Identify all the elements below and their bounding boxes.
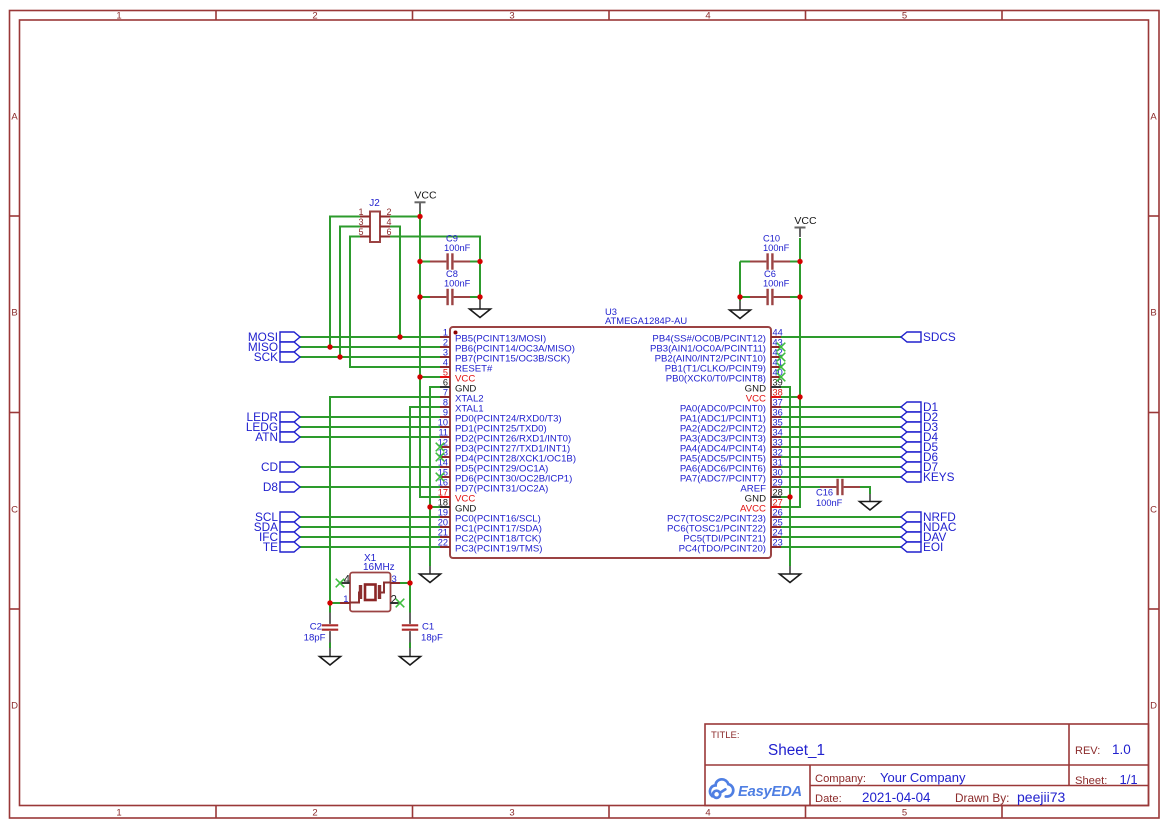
svg-text:2: 2 <box>443 338 448 348</box>
U3 pin 29 AREF <box>740 478 782 495</box>
junction XTAL2 / X1 pin1 / C2 <box>327 600 332 605</box>
port flag D1 <box>901 400 938 414</box>
IC U3 ATMEGA1284P-AU body <box>450 327 771 558</box>
wire C10/C6 left rail to ground <box>739 262 741 303</box>
svg-text:100nF: 100nF <box>763 243 790 253</box>
port flag NDAC <box>901 520 957 534</box>
wire SDA flag to U3 pin20 <box>300 526 440 528</box>
U3 pin 1 PB5(PCINT13/MOSI) <box>440 328 546 345</box>
svg-text:4: 4 <box>443 358 448 368</box>
svg-text:1: 1 <box>116 11 121 22</box>
title block <box>705 724 1149 806</box>
svg-text:TITLE:: TITLE: <box>711 730 740 741</box>
U3 pin 27 AVCC <box>740 498 783 515</box>
wire C16 to ground <box>860 487 870 495</box>
svg-text:Drawn By:: Drawn By: <box>955 791 1009 805</box>
X1 pin 4 <box>340 575 351 587</box>
svg-text:C1: C1 <box>422 622 434 633</box>
svg-text:EasyEDA: EasyEDA <box>738 784 802 800</box>
wire U3 to D6 flag <box>781 456 901 458</box>
wire VCC rail right (to U3 pin27 AVCC) <box>781 238 800 507</box>
svg-text:D: D <box>1150 701 1157 712</box>
U3 pin 32 PA5(ADC5/PCINT5) <box>680 448 783 465</box>
junction U3 pin28 / GND rail <box>787 494 792 499</box>
U3 pin 9 PD0(PCINT24/RXD0/T3) <box>440 408 562 425</box>
U3 pin 8 XTAL1 <box>440 398 484 415</box>
wire C2 to ground <box>329 642 331 649</box>
wire VCC rail to C8 left <box>420 296 430 298</box>
svg-text:7: 7 <box>443 388 448 398</box>
wire C6 right to VCC rail <box>790 296 800 298</box>
port flag LEDR <box>247 410 300 424</box>
no-connect X on U3 pin 12 <box>436 443 445 452</box>
U3 pin 41 PB1(T1/CLKO/PCINT9) <box>665 358 783 375</box>
U3 pin 14 PD5(PCINT29/OC1A) <box>438 458 549 475</box>
crystal X1 body <box>350 573 391 612</box>
svg-text:4: 4 <box>344 575 351 587</box>
wire U3 pin8 XTAL1 to crystal pin3 / C1 <box>410 407 440 614</box>
svg-text:2: 2 <box>312 11 317 22</box>
wire SCL flag to U3 pin19 <box>300 516 440 518</box>
svg-text:PC4(TDO/PCINT20): PC4(TDO/PCINT20) <box>679 543 766 554</box>
svg-text:Company:: Company: <box>815 773 866 785</box>
U3 pin 44 PB4(SS#/OC0B/PCINT12) <box>652 328 782 345</box>
wire U3 pin39 GND to ground rail <box>781 387 790 567</box>
ground below U3 pin6/pin18 rail <box>420 566 441 583</box>
junction C6 right / VCC rail <box>797 294 802 299</box>
port flag SCL <box>255 510 300 524</box>
svg-text:REV:: REV: <box>1075 745 1100 757</box>
J2 pin 2 <box>380 207 392 217</box>
power symbol VCC (right) <box>794 215 817 237</box>
U3 pin 11 PD2(PCINT26/RXD1/INT0) <box>438 428 571 445</box>
svg-text:100nF: 100nF <box>763 279 790 289</box>
port flag SCK <box>254 350 300 364</box>
svg-text:A: A <box>11 112 18 123</box>
capacitor C2 <box>322 613 338 643</box>
svg-text:2021-04-04: 2021-04-04 <box>862 790 931 805</box>
svg-text:VCC: VCC <box>414 190 437 202</box>
U3 pin 21 PC2(PCINT18/TCK) <box>438 528 542 545</box>
junction C9 right / rail <box>477 259 482 264</box>
wire U3 pin29 AREF to C16 <box>781 486 820 488</box>
C10 labels <box>763 234 790 254</box>
J2 pin 5 <box>358 227 370 237</box>
svg-text:C: C <box>11 505 18 516</box>
no-connect X on U3 pin 41 <box>777 363 786 372</box>
svg-text:4: 4 <box>705 11 710 22</box>
U3 pin 12 PD3(PCINT27/TXD1/INT1) <box>438 438 570 455</box>
power symbol VCC (left) <box>414 190 437 212</box>
svg-text:J2: J2 <box>369 198 380 209</box>
svg-text:16MHz: 16MHz <box>363 562 395 573</box>
svg-text:C10: C10 <box>763 234 780 244</box>
svg-text:5: 5 <box>443 368 448 378</box>
svg-text:2: 2 <box>391 595 397 607</box>
svg-text:TE: TE <box>263 540 278 554</box>
wire J2 pin3 to U3 pin3 SCK net <box>340 227 440 358</box>
wire C1 to ground <box>409 642 411 649</box>
port flag IFC <box>259 530 300 544</box>
U3 pin 37 PA0(ADC0/PCINT0) <box>680 398 783 415</box>
wire C10 right to VCC rail <box>790 261 800 263</box>
svg-text:100nF: 100nF <box>444 279 471 289</box>
port flag CD <box>261 460 300 474</box>
no-connect X on U3 pin 15 <box>436 473 445 482</box>
U3 pin 2 PB6(PCINT14/OC3A/MISO) <box>440 338 575 355</box>
junction U3 pin5 / VCC rail <box>417 374 422 379</box>
capacitor C9 <box>430 253 470 269</box>
C16 labels <box>816 488 843 509</box>
wire rail to C6 left <box>740 296 750 298</box>
C2 labels <box>304 622 326 644</box>
port flag D6 <box>901 450 939 464</box>
svg-text:C: C <box>1150 505 1157 516</box>
wire U3 to NDAC flag <box>781 526 901 528</box>
port flag D2 <box>901 410 938 424</box>
U3 pin-1 marker dot <box>454 331 458 335</box>
svg-text:C8: C8 <box>446 269 458 279</box>
U3 pin 18 GND <box>438 498 477 515</box>
junction XTAL1 / X1 pin3 / C1 <box>407 580 412 585</box>
wire J2 pin4 to MOSI net <box>390 227 400 338</box>
svg-text:Date:: Date: <box>815 793 842 805</box>
junction J2 pin3 / SCK <box>337 354 342 359</box>
port flag KEYS <box>901 470 955 484</box>
wire D8 flag to U3 pin16 <box>300 486 440 488</box>
svg-text:100nF: 100nF <box>816 498 843 508</box>
svg-text:VCC: VCC <box>794 215 817 227</box>
wire rail to C10 left <box>740 261 750 263</box>
svg-text:1/1: 1/1 <box>1120 772 1138 787</box>
U3 pin 31 PA6(ADC6/PCINT6) <box>680 458 783 475</box>
wire J2 pin5 to U3 pin4 RESET net <box>350 237 440 368</box>
svg-text:C9: C9 <box>446 234 458 244</box>
junction C8 left / VCC rail <box>417 294 422 299</box>
svg-text:1: 1 <box>116 808 121 819</box>
U3 pin 13 PD4(PCINT28/XCK1/OC1B) <box>438 448 576 465</box>
ground below C1 <box>400 648 421 665</box>
svg-text:A: A <box>1150 112 1157 123</box>
port flag D4 <box>901 430 939 444</box>
svg-text:1.0: 1.0 <box>1112 742 1131 757</box>
U3 pin 17 VCC <box>438 488 476 505</box>
wire U3 to D4 flag <box>781 436 901 438</box>
svg-text:C6: C6 <box>764 269 776 279</box>
svg-text:CD: CD <box>261 460 278 474</box>
svg-text:3: 3 <box>443 348 448 358</box>
wire U3 pin18 GND to ground rail <box>430 506 440 508</box>
wire TE flag to U3 pin22 <box>300 546 440 548</box>
svg-text:5: 5 <box>902 11 907 22</box>
svg-text:18pF: 18pF <box>421 633 443 644</box>
wire U3 pin6 GND to ground rail <box>430 387 440 567</box>
junction J2 pin1 / MISO <box>327 344 332 349</box>
svg-text:KEYS: KEYS <box>923 470 955 484</box>
U3 pin 19 PC0(PCINT16/SCL) <box>438 508 541 525</box>
capacitor C8 <box>430 289 470 305</box>
C6 labels <box>763 269 790 289</box>
U3 pin 26 PC7(TOSC2/PCINT23) <box>667 508 783 525</box>
port flag D8 <box>263 480 300 494</box>
U3 pin 20 PC1(PCINT17/SDA) <box>438 518 542 535</box>
svg-text:Your Company: Your Company <box>880 770 966 785</box>
svg-text:D8: D8 <box>263 480 279 494</box>
U3 pin 38 VCC <box>746 388 783 405</box>
svg-text:18pF: 18pF <box>304 633 326 644</box>
no-connect X on X1 pin 2 <box>396 599 405 608</box>
svg-text:ATMEGA1284P-AU: ATMEGA1284P-AU <box>605 315 687 326</box>
X1 pin 1 <box>340 594 350 605</box>
svg-text:5: 5 <box>902 808 907 819</box>
C8 labels <box>444 269 471 289</box>
wire U3 to DAV flag <box>781 536 901 538</box>
svg-text:SDCS: SDCS <box>923 330 956 344</box>
wire VCC rail to U3 pin5 <box>420 376 440 378</box>
svg-text:Sheet_1: Sheet_1 <box>768 742 825 759</box>
port flag SDCS <box>901 330 956 344</box>
U3 pin 3 PB7(PCINT15/OC3B/SCK) <box>440 348 570 365</box>
U3 pin 43 PB3(AIN1/OC0A/PCINT11) <box>650 338 783 355</box>
svg-text:PC3(PCINT19/TMS): PC3(PCINT19/TMS) <box>455 543 542 554</box>
junction U3 pin18 / GND rail <box>427 504 432 509</box>
ground below C2 <box>320 648 341 665</box>
X1 pin 3 <box>390 574 400 585</box>
svg-text:B: B <box>11 308 17 319</box>
svg-text:8: 8 <box>443 398 448 408</box>
port flag ATN <box>255 430 300 444</box>
capacitor C6 <box>750 289 790 305</box>
ground below C6 <box>730 301 751 319</box>
svg-text:C16: C16 <box>816 488 833 498</box>
U3 pin 33 PA4(ADC4/PCINT4) <box>680 438 783 455</box>
wire C9 right to rail <box>470 261 480 263</box>
svg-text:6: 6 <box>443 378 448 388</box>
U3 pin 15 PD6(PCINT30/OC2B/ICP1) <box>438 468 573 485</box>
svg-text:peejii73: peejii73 <box>1017 789 1065 805</box>
wire MISO flag to U3 pin2 <box>300 346 440 348</box>
wire U3 to D7 flag <box>781 466 901 468</box>
U3 pin 28 GND <box>745 488 783 505</box>
U3 pin 23 PC4(TDO/PCINT20) <box>679 538 783 555</box>
U3 pin 30 PA7(ADC7/PCINT7) <box>680 468 783 485</box>
svg-text:D: D <box>11 701 18 712</box>
wire U3 to D1 flag <box>781 406 901 408</box>
junction J2 pin2 / VCC rail <box>417 214 422 219</box>
svg-text:1: 1 <box>343 594 348 605</box>
U3 pin 5 VCC <box>440 368 475 385</box>
X1 labels <box>363 553 395 573</box>
wire U3 pin7 XTAL2 to crystal pin1 / C2 <box>330 397 440 616</box>
junction C8 right / rail <box>477 294 482 299</box>
port flag MISO <box>248 340 300 354</box>
wire VCC rail left (to U3 pin17) <box>420 212 440 498</box>
port flag SDA <box>254 520 300 534</box>
junction C6 left / gnd rail <box>737 294 742 299</box>
port flag DAV <box>901 530 947 544</box>
capacitor C16 <box>820 479 860 495</box>
svg-text:1: 1 <box>443 328 448 338</box>
wire LEDG flag to U3 pin10 <box>300 426 440 428</box>
C1 labels <box>421 622 443 644</box>
port flag D3 <box>901 420 939 434</box>
wire J2 pin2 to VCC rail <box>390 216 420 218</box>
wire J2 pin1 to U3 pin2 MISO net <box>330 217 440 348</box>
wire U3 pin38 VCC to rail <box>781 396 800 398</box>
svg-text:EOI: EOI <box>923 540 943 554</box>
capacitor C10 <box>750 253 790 269</box>
svg-text:C2: C2 <box>310 622 322 633</box>
C9 labels <box>444 234 471 254</box>
U3 pin 42 PB2(AIN0/INT2/PCINT10) <box>655 348 783 365</box>
svg-text:9: 9 <box>443 408 448 418</box>
port flag D5 <box>901 440 939 454</box>
U3 pin 10 PD1(PCINT25/TXD0) <box>438 418 547 435</box>
svg-text:SCK: SCK <box>254 350 278 364</box>
no-connect X on U3 pin 13 <box>436 453 445 462</box>
title block texts <box>711 730 1107 805</box>
svg-text:2: 2 <box>312 808 317 819</box>
ground below C8 <box>470 300 491 318</box>
U3 pin 16 PD7(PCINT31/OC2A) <box>438 478 549 495</box>
wire U3 to D3 flag <box>781 426 901 428</box>
junction C10 right / VCC rail <box>797 259 802 264</box>
svg-text:B: B <box>1150 308 1156 319</box>
U3 pin 35 PA2(ADC2/PCINT2) <box>680 418 783 435</box>
U3 pin 34 PA3(ADC3/PCINT3) <box>680 428 783 445</box>
svg-text:100nF: 100nF <box>444 243 471 253</box>
svg-text:3: 3 <box>509 808 514 819</box>
wire U3 pin28 GND to ground rail <box>781 496 790 498</box>
U3 pin 39 GND <box>745 378 783 395</box>
port flag EOI <box>901 540 943 554</box>
junction U3 pin38 / VCC rail <box>797 394 802 399</box>
no-connect X on X1 pin 4 <box>336 579 345 588</box>
U3 pin 25 PC6(TOSC1/PCINT22) <box>667 518 783 535</box>
svg-text:Sheet:: Sheet: <box>1075 775 1107 787</box>
ground below U3 pin39/pin28 rail <box>780 566 801 583</box>
wire J2 pin6 to GND via C9/C8 right rail <box>390 237 480 302</box>
wire SCK flag to U3 pin3 <box>300 356 440 358</box>
J2 pin 1 <box>358 207 370 217</box>
EasyEDA logo <box>710 779 802 800</box>
port flag MOSI <box>248 330 300 344</box>
wire MOSI flag to U3 pin1 <box>300 336 440 338</box>
svg-text:3: 3 <box>509 11 514 22</box>
U3 pin 7 XTAL2 <box>440 388 484 405</box>
U3 pin 22 PC3(PCINT19/TMS) <box>438 538 543 555</box>
U3 pin 24 PC5(TDI/PCINT21) <box>683 528 782 545</box>
wire U3 to D5 flag <box>781 446 901 448</box>
wire CD flag to U3 pin14 <box>300 466 440 468</box>
no-connect X on U3 pin 43 <box>777 343 786 352</box>
U3 pin 4 RESET# <box>440 358 493 375</box>
wire LEDR flag to U3 pin9 <box>300 416 440 418</box>
no-connect X on U3 pin 40 <box>777 373 786 382</box>
wire IFC flag to U3 pin21 <box>300 536 440 538</box>
J2 pin 3 <box>358 217 370 227</box>
wire C8 right to rail <box>470 296 480 298</box>
svg-text:4: 4 <box>705 808 710 819</box>
wire U3 to KEYS flag <box>781 476 901 478</box>
wire crystal pin3 branch <box>400 582 410 584</box>
wire U3 to D2 flag <box>781 416 901 418</box>
port flag D7 <box>901 460 938 474</box>
U3 pin 40 PB0(XCK0/T0/PCINT8) <box>666 368 783 385</box>
junction C9 left / VCC rail <box>417 259 422 264</box>
no-connect X on U3 pin 42 <box>777 353 786 362</box>
U3 pin 6 GND <box>440 378 476 395</box>
port flag NRFD <box>901 510 956 524</box>
ground below C16 <box>860 494 881 510</box>
wire crystal pin1 branch <box>330 602 340 604</box>
wire U3 to NRFD flag <box>781 516 901 518</box>
U3 pin 36 PA1(ADC1/PCINT1) <box>680 408 783 425</box>
wire U3 to EOI flag <box>781 546 901 548</box>
wire VCC rail to C9 left <box>420 261 430 263</box>
junction J2 pin4 / MOSI <box>397 334 402 339</box>
svg-text:3: 3 <box>392 574 397 585</box>
wire U3 pin44 to SDCS flag <box>781 336 901 338</box>
J2 pin 6 <box>380 227 392 237</box>
capacitor C1 <box>402 613 418 643</box>
wire ATN flag to U3 pin11 <box>300 436 440 438</box>
connector J2 body <box>370 212 380 243</box>
J2 pin 4 <box>380 217 392 227</box>
svg-text:ATN: ATN <box>255 430 278 444</box>
port flag LEDG <box>246 420 300 434</box>
X1 pin 2 <box>390 595 400 607</box>
port flag TE <box>263 540 300 554</box>
